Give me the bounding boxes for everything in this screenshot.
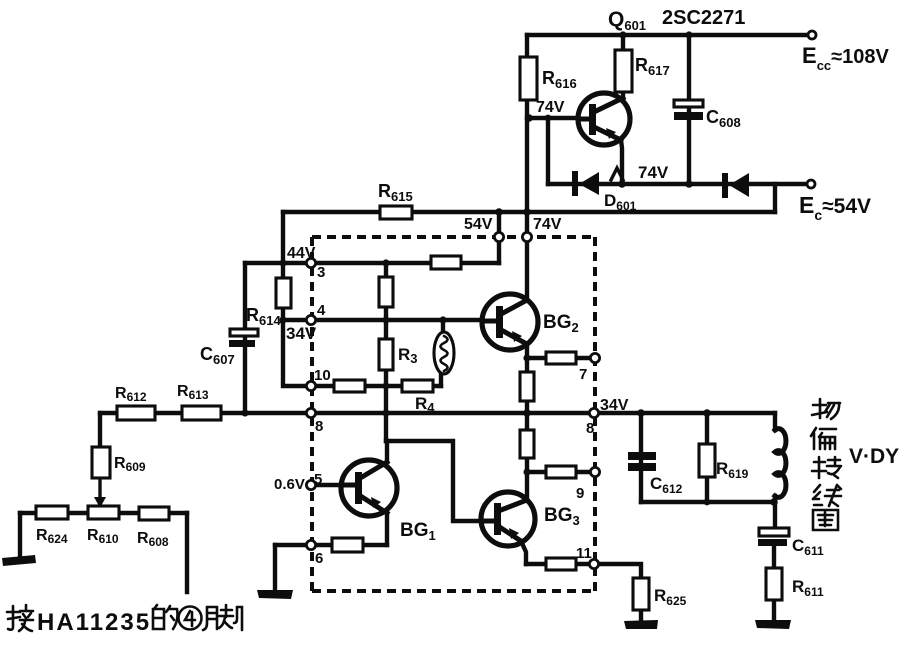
label pin 6 — [315, 550, 323, 567]
wire base of Q601 — [527, 116, 580, 120]
wire emitter of Q601 down to diode rail — [621, 140, 622, 184]
svg-text:10: 10 — [314, 367, 331, 384]
wire BG1 collector over to BG3 base — [386, 441, 481, 521]
resistor R612 — [117, 406, 155, 420]
svg-text:8: 8 — [586, 420, 594, 437]
label 34V pin4 — [286, 324, 317, 343]
label R616 — [542, 68, 577, 91]
label R4 — [415, 394, 435, 415]
capacitor C611 — [758, 528, 789, 546]
capacitor C608 — [674, 100, 703, 120]
inductor V-DY coil — [775, 429, 786, 498]
svg-text:2SC2271: 2SC2271 — [662, 7, 745, 29]
dashed IC box bottom edge — [312, 589, 594, 593]
hanzi quan (coil) — [813, 510, 838, 530]
terminal Ecc — [808, 31, 816, 39]
transistor Q601 — [578, 93, 630, 145]
svg-text:74V: 74V — [533, 216, 562, 233]
resistor below rail x527 — [520, 430, 534, 458]
resistor R609 — [92, 447, 110, 478]
hanzi zhuan (turn) — [812, 457, 841, 478]
wire C608 leads — [687, 35, 691, 184]
resistor pin6 row — [332, 538, 363, 552]
terminal Ec — [807, 180, 815, 188]
label V-DY — [849, 445, 899, 468]
wire R625 to ground — [639, 610, 643, 621]
wire pin11 to R625 — [598, 564, 641, 578]
text HA11235 — [37, 609, 151, 636]
wire BG1 emitter drop — [385, 513, 389, 545]
label R612 — [115, 385, 147, 404]
wire mid vertical x386 through R3 — [384, 263, 388, 441]
wire main 34V rail — [100, 411, 775, 415]
capacitor C612 — [628, 452, 656, 471]
resistor R4 — [402, 380, 433, 392]
wire C612 branch — [639, 413, 643, 502]
svg-text:11: 11 — [576, 545, 592, 562]
resistor R614 — [276, 278, 291, 308]
wire x527 below rail to BG3 collector — [525, 413, 529, 500]
node 74V pin — [522, 232, 531, 241]
label Ec 54V — [799, 192, 871, 223]
svg-text:0.6V: 0.6V — [274, 476, 305, 493]
label R617 — [635, 55, 670, 78]
svg-text:HA11235: HA11235 — [37, 609, 151, 636]
node pin 3 — [306, 258, 315, 267]
node pin 6 — [306, 540, 315, 549]
wire pin9 row — [527, 470, 590, 474]
label pin 8 left — [315, 418, 323, 435]
wire bottom of yoke network — [641, 500, 774, 504]
wire lamp top lead — [441, 320, 445, 334]
node pin 9 — [590, 467, 599, 476]
wire BG3 emitter to pin11 row — [521, 541, 526, 564]
wire R615 rail — [283, 210, 775, 214]
emitter arrowhead of Q601 — [611, 168, 623, 180]
label 44V — [287, 245, 316, 262]
resistor pin11 row — [546, 558, 576, 570]
label 74V base Q601 — [536, 99, 565, 116]
transistor BG1 — [341, 460, 397, 516]
label pin 5 — [314, 471, 322, 488]
resistor R615 — [380, 206, 412, 219]
diode D601 — [572, 171, 599, 196]
svg-text:44V: 44V — [287, 245, 316, 262]
wire R609 wiper arrow — [94, 478, 106, 508]
label Q601 — [608, 8, 646, 33]
diode D601b — [722, 173, 749, 198]
resistor pin10 row — [334, 380, 365, 392]
ground bottom-left — [2, 555, 36, 566]
label pin 11 — [576, 545, 592, 562]
wire C607 lead — [243, 263, 247, 413]
label Ecc 108V — [802, 43, 890, 73]
label R3 — [398, 345, 418, 366]
wire bottom left ground riser — [18, 513, 22, 558]
resistor R613 — [182, 406, 221, 420]
capacitor C607 — [229, 329, 258, 347]
wire pin6 row — [275, 543, 387, 547]
label R624 — [36, 527, 68, 546]
label pin 9 — [576, 485, 584, 502]
label 54V pin — [464, 216, 493, 233]
label R609 — [114, 455, 146, 474]
node pin 4 — [306, 315, 315, 324]
hanzi pian (deflection) — [811, 428, 836, 449]
label 2SC2271 — [662, 7, 745, 29]
wire anode branch x548 down from base line — [546, 118, 550, 184]
resistor above rail x527 — [520, 372, 534, 401]
ground R625 — [624, 620, 658, 629]
wire bottom divider row — [20, 511, 187, 515]
label R611 — [792, 577, 824, 599]
ground pin6 — [257, 590, 293, 599]
label C612 — [650, 474, 683, 496]
node pin 8 right 34V — [589, 408, 598, 417]
wire left vertical x283 through R614 — [283, 212, 306, 386]
hanzi jie (connect) — [7, 605, 33, 631]
wire pin7 row — [527, 356, 590, 360]
resistor R616 — [520, 57, 537, 100]
label R613 — [177, 383, 209, 402]
wire pin5 row to BG1 base — [315, 483, 343, 487]
resistor on pin3 row — [431, 256, 461, 269]
wire lamp bottom lead — [439, 370, 443, 386]
resistor mid divider x386 — [379, 277, 393, 307]
dashed IC box right edge — [593, 237, 597, 591]
wire yoke top corner — [773, 413, 777, 430]
svg-text:9: 9 — [576, 485, 584, 502]
resistor R617 — [615, 50, 632, 92]
svg-text:74V: 74V — [638, 163, 669, 182]
svg-text:74V: 74V — [536, 99, 565, 116]
svg-text:54V: 54V — [464, 216, 493, 233]
lamp / thermistor — [434, 332, 454, 374]
hanzi xian (wire) — [813, 485, 841, 506]
label pin 4 — [317, 302, 326, 319]
ground R611 — [755, 620, 791, 629]
label C607 — [200, 344, 235, 367]
wire R619 branch — [705, 413, 709, 502]
wire left end down to R609 — [98, 413, 102, 447]
resistor R3 — [379, 339, 393, 370]
label pin 8 right — [586, 420, 594, 437]
wire C611 to R611 — [772, 546, 776, 568]
transistor BG2 — [482, 294, 538, 350]
wire coil bottom — [773, 496, 777, 528]
node pin 10 — [306, 381, 315, 390]
resistor R625 — [633, 578, 649, 610]
label R619 — [716, 459, 749, 481]
label D601 — [604, 191, 637, 213]
resistor R608 — [139, 507, 169, 520]
node pin 11 — [589, 559, 598, 568]
label 74V emitter — [638, 163, 669, 182]
label pin 7 — [579, 366, 587, 383]
wire pin11 row — [526, 562, 590, 566]
label pin 3 — [317, 264, 325, 281]
label 34V rail — [600, 397, 629, 414]
wire pin3 row — [245, 261, 499, 265]
node 54V pin — [494, 232, 503, 241]
label BG3 — [544, 505, 580, 528]
wire R617 lead down to Q601 collector — [621, 35, 625, 100]
wire R611 to ground — [772, 600, 776, 621]
hanzi chang (field) — [812, 399, 840, 419]
label R614 — [246, 305, 281, 328]
node pin 7 — [590, 353, 599, 362]
circled four — [179, 607, 202, 630]
resistor R624 — [36, 506, 68, 519]
label BG2 — [543, 312, 579, 335]
wire diode rail to Ec terminal — [548, 182, 809, 186]
wire pin10 row — [315, 384, 441, 388]
svg-text:34V: 34V — [600, 397, 629, 414]
wire BG1 collector stub — [385, 441, 389, 462]
node pin 5 — [306, 480, 315, 489]
svg-text:6: 6 — [315, 550, 323, 567]
label R610 — [87, 527, 119, 546]
wire pin4 row to BG2 base — [283, 318, 484, 322]
hanzi de (of) — [153, 605, 178, 629]
label C608 — [706, 107, 741, 130]
resistor R610 — [88, 506, 119, 519]
wire top supply rail to Ecc terminal — [527, 33, 810, 37]
node pin 8 left — [306, 408, 315, 417]
svg-text:4: 4 — [317, 302, 326, 319]
wire 54V drop — [497, 212, 501, 263]
wire HA11235 drop — [185, 513, 189, 592]
svg-text:5: 5 — [314, 471, 322, 488]
label C611 — [792, 536, 824, 558]
dashed IC box left edge — [310, 237, 314, 591]
resistor R611 — [766, 568, 782, 600]
wire Ec drop to R615 rail — [773, 184, 777, 212]
svg-text:3: 3 — [317, 264, 325, 281]
label R608 — [137, 530, 169, 549]
dashed IC box top edge — [312, 235, 595, 239]
label R625 — [654, 586, 687, 608]
transistor BG3 — [481, 492, 535, 546]
label pin 10 — [314, 367, 331, 384]
svg-text:V·DY: V·DY — [849, 445, 899, 468]
label 74V pin — [533, 216, 562, 233]
wire BG2 emitter vertical x527 — [525, 344, 529, 413]
resistor pin9 row — [546, 466, 576, 478]
wire pin6 ground riser — [273, 545, 277, 591]
resistor R619 — [699, 444, 715, 477]
label 0.6V — [274, 476, 305, 493]
svg-text:7: 7 — [579, 366, 587, 383]
svg-text:34V: 34V — [286, 324, 317, 343]
hanzi jiao (pin) — [203, 605, 242, 630]
wire collector branch vertical x527 (R616 / base / down to BG2) — [525, 35, 529, 300]
svg-text:8: 8 — [315, 418, 323, 435]
resistor pin7 row — [546, 352, 576, 364]
label BG1 — [400, 520, 436, 543]
label R615 — [378, 181, 413, 204]
